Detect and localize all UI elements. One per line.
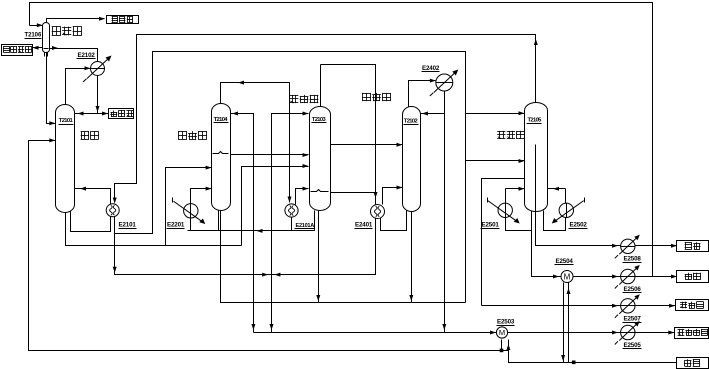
label E2502 — [569, 222, 588, 229]
box raw material — [677, 358, 709, 369]
wire T2106 sidedraw to E2102 — [50, 46, 98, 62]
svg-text:T2105: T2105 — [528, 117, 543, 123]
label T2105 — [527, 117, 543, 123]
label E2401 — [355, 222, 373, 229]
box light ends — [109, 109, 134, 119]
wire T2106 gas inlet arrow — [30, 23, 43, 27]
box fusel oil — [676, 300, 709, 311]
wire T2101 reboiler loop — [71, 187, 111, 232]
wire fusel oil line — [482, 304, 676, 308]
wire E2502 loop — [544, 187, 566, 231]
exchanger E2201 — [173, 198, 206, 225]
wire T2106 overhead to offgas box — [47, 17, 106, 23]
wire T2104 overhead to E2101A — [221, 81, 292, 203]
label E2508 — [623, 256, 642, 263]
reboiler E2101A — [285, 204, 298, 217]
label T2106 — [25, 33, 42, 39]
wire T2106 bottoms to oil box — [33, 46, 43, 50]
wire left border feed line — [29, 141, 677, 363]
wire T2103 overhead riser — [320, 65, 322, 107]
box wastewater — [677, 271, 709, 283]
label E2506 — [623, 286, 642, 293]
exchanger E2501 — [488, 198, 520, 224]
title pre-column — [81, 131, 99, 139]
svg-text:T2101: T2101 — [59, 118, 74, 124]
reboiler E2401 — [371, 205, 385, 219]
label E2504 — [555, 258, 574, 265]
wire E2402 outlet and reflux — [421, 91, 447, 333]
wire T2105 lower feed — [466, 159, 525, 163]
title atmospheric column — [362, 93, 391, 101]
label E2201 — [167, 222, 185, 229]
internal pipe T2105 — [535, 145, 537, 212]
internal tray T2103 — [311, 190, 329, 192]
label E2101 — [119, 222, 137, 229]
svg-text:M: M — [564, 272, 571, 281]
column T2102 atmospheric — [403, 107, 421, 212]
label T2102 — [404, 118, 419, 124]
wire T2103 sidedraw to E2401 — [331, 192, 376, 194]
cooler E2507 — [615, 294, 640, 318]
wire T2103 bottoms to header B — [316, 211, 320, 303]
wire bus2 E2101 condensate to T2105 — [115, 52, 466, 303]
wire top border from absorber inlet to right border — [30, 3, 653, 277]
svg-text:M: M — [499, 328, 505, 337]
svg-text:E2503: E2503 — [497, 319, 515, 326]
label T2103 — [312, 117, 327, 123]
wire riser to T2103 feed — [242, 164, 309, 246]
label E2101A — [295, 223, 315, 229]
wire T2102 overhead to E2402 — [409, 79, 436, 107]
wire T2104 to T2103 feed — [231, 153, 309, 157]
cooler E2505 — [615, 321, 640, 345]
label E2501 — [481, 222, 500, 229]
cooler E2506 — [615, 265, 640, 289]
wire T2105 internal draw to ethanol line — [536, 145, 678, 248]
pump E2503 with motor — [496, 327, 507, 338]
wire T2104 bottoms to header B — [221, 211, 466, 303]
title pressurized column — [178, 131, 207, 139]
cooler E2508 — [615, 235, 640, 258]
wire header A inward arrows — [262, 273, 280, 277]
label E2503 — [497, 319, 515, 326]
label E2402 — [422, 65, 440, 72]
wire wastewater line — [573, 275, 678, 279]
svg-text:E2502: E2502 — [570, 222, 588, 229]
svg-text:E2505: E2505 — [624, 342, 642, 349]
wire sidedraw1 arrow onto product header — [251, 324, 255, 330]
label E2102 — [77, 52, 96, 59]
wire riser to T2104 feed — [166, 166, 212, 246]
label E2507 — [623, 316, 642, 323]
svg-text:E2508: E2508 — [624, 256, 642, 263]
column T2106 absorber — [43, 23, 50, 57]
exchanger E2502 — [552, 198, 585, 224]
column T2104 pressurized — [212, 104, 231, 211]
title low-pressure column — [290, 95, 319, 103]
wire T2105 bottoms pipe — [532, 212, 561, 279]
wire E2101A return — [296, 187, 309, 205]
box oil phase impurity — [2, 45, 33, 56]
box methanol product — [675, 328, 709, 339]
svg-text:E2506: E2506 — [624, 286, 642, 293]
svg-text:E2402: E2402 — [422, 65, 440, 72]
svg-text:E2102: E2102 — [78, 52, 96, 59]
wire reboiler bottoms tie line — [188, 211, 315, 233]
wire E2401 return — [383, 186, 403, 205]
svg-text:E2401: E2401 — [355, 222, 373, 229]
reboiler E2101 — [106, 204, 119, 217]
label T2101 — [59, 118, 74, 124]
internal tray T2104 — [213, 152, 229, 154]
column T2103 low-pressure — [310, 107, 331, 211]
exchanger E2402 condenser — [430, 70, 459, 97]
svg-text:E2101: E2101 — [119, 222, 137, 229]
wire E2201 loop — [191, 211, 219, 231]
wire T2106 bottoms to T2101 feed — [47, 53, 56, 126]
label T2104 — [214, 117, 229, 123]
wire E2503 suction — [500, 340, 511, 353]
wire T2101 overhead to E2102 — [66, 66, 91, 104]
svg-text:T2102: T2102 — [404, 118, 418, 124]
exchanger E2102 condenser — [83, 56, 112, 83]
wire E2504 feed loop — [561, 283, 570, 363]
wire E2101A bottom loop — [291, 217, 293, 231]
svg-text:E2501: E2501 — [482, 222, 500, 229]
wire bus1 up arrow at T2105 — [534, 39, 538, 45]
svg-text:T2103: T2103 — [312, 117, 327, 123]
title recovery column — [497, 131, 524, 139]
wire T2101 bottoms header — [66, 211, 242, 246]
box ethanol — [677, 241, 709, 252]
wire E2102 outlet down — [96, 76, 100, 114]
wire reflux and light-ends line — [75, 112, 109, 116]
wire T2102 bottoms to header B — [409, 212, 413, 303]
wire E2401 heat down arrow — [374, 192, 378, 198]
svg-text:T2104: T2104 — [214, 117, 229, 123]
wire raw material junction — [572, 361, 576, 365]
svg-text:E2504: E2504 — [556, 258, 574, 265]
box offgas — [107, 16, 139, 24]
svg-text:T2106: T2106 — [25, 33, 42, 39]
wire bus1 T2105 overhead to E2101 heat — [115, 35, 536, 203]
wire methanol product header — [254, 331, 675, 335]
column T2105 recovery — [525, 103, 548, 212]
wire T2105 fusel sidedraw — [482, 179, 525, 306]
label E2505 — [623, 342, 642, 349]
wire E2101 heat down arrow — [113, 198, 117, 204]
wire T2105 upper feed — [466, 111, 525, 115]
wire feed arrow into T2101 lower — [49, 138, 55, 142]
svg-text:E2201: E2201 — [167, 222, 185, 229]
pump E2504 with motor — [561, 271, 573, 283]
column T2101 pre-column — [56, 105, 75, 213]
title absorber — [52, 27, 82, 36]
wire header A E2101 drain to E2401 shell — [113, 65, 376, 275]
wire T2103 to T2102 feed — [331, 143, 403, 147]
wire T2104 sidedraw1 down — [231, 112, 254, 333]
wire E2401 thermosiphon loop — [381, 210, 407, 231]
wire T2104 sidedraw2 down — [270, 112, 309, 333]
wire E2201 return — [191, 187, 212, 204]
wire E2501 loop — [506, 187, 532, 231]
